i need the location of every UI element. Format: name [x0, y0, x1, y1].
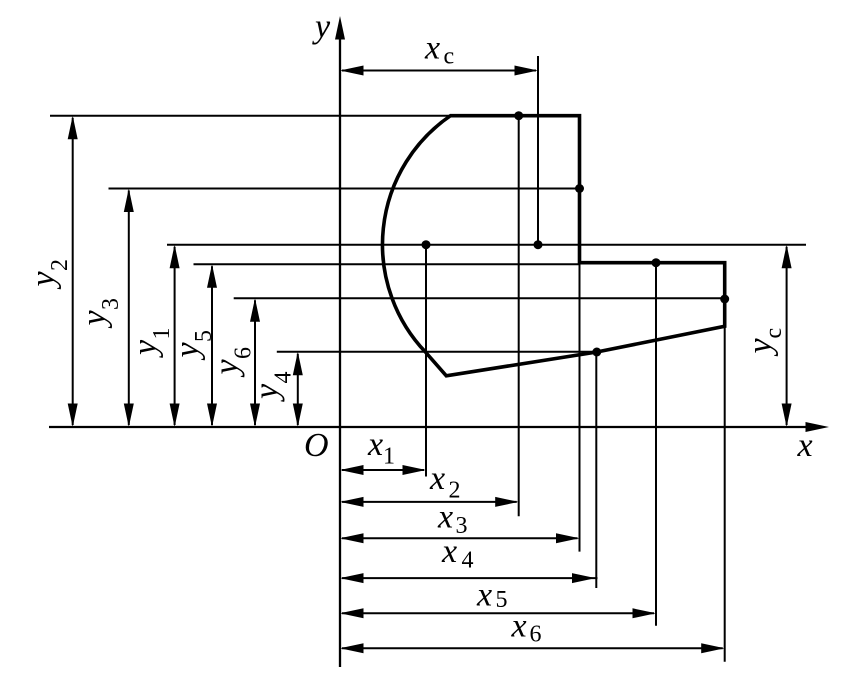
- centroid dot C5: [652, 258, 661, 267]
- label xc: [424, 30, 454, 70]
- extension line y5: [194, 263, 581, 265]
- extension line x2: [518, 116, 520, 517]
- label x5: [476, 577, 508, 614]
- label x6: [511, 608, 542, 648]
- label x4: [441, 533, 474, 574]
- centroid dot C6: [720, 295, 729, 304]
- svg-text:4: 4: [271, 372, 297, 384]
- svg-text:1: 1: [383, 444, 395, 470]
- label y2: [25, 259, 73, 290]
- svg-text:x: x: [441, 533, 457, 570]
- svg-text:x: x: [429, 460, 445, 497]
- extension line y3: [109, 188, 580, 190]
- svg-text:6: 6: [530, 622, 542, 648]
- svg-text:x: x: [367, 426, 383, 463]
- svg-text:1: 1: [149, 328, 175, 340]
- centroid dot C3: [575, 184, 584, 193]
- dimension x5: [340, 608, 656, 618]
- svg-text:c: c: [761, 328, 787, 339]
- svg-text:y: y: [169, 342, 206, 361]
- svg-text:x: x: [476, 577, 492, 614]
- svg-text:4: 4: [462, 548, 474, 574]
- extension line y1 / yc: [167, 244, 806, 246]
- svg-text:5: 5: [496, 587, 508, 613]
- svg-text:2: 2: [47, 259, 73, 271]
- label x2: [429, 460, 461, 503]
- dimension x2: [340, 497, 519, 507]
- dimension y1: [170, 245, 180, 427]
- label x1: [367, 426, 395, 470]
- extension line x4: [595, 352, 597, 588]
- svg-text:x: x: [511, 608, 527, 645]
- centroid dot C1: [422, 240, 431, 249]
- svg-text:5: 5: [191, 330, 217, 342]
- dimension xc: [340, 66, 538, 76]
- extension line x3: [579, 263, 581, 552]
- x-axis: [49, 422, 829, 432]
- dimension yc: [782, 245, 792, 427]
- svg-text:x: x: [437, 499, 453, 536]
- dimension y6: [250, 298, 260, 427]
- extension line x6: [724, 299, 726, 662]
- dimension y4: [293, 352, 303, 427]
- svg-text:x: x: [797, 427, 813, 464]
- label y5: [169, 330, 217, 361]
- svg-text:y: y: [127, 339, 164, 358]
- svg-text:y: y: [209, 359, 246, 378]
- centroid dot C overall: [534, 240, 543, 249]
- centroid dot C4: [592, 348, 601, 357]
- svg-text:x: x: [424, 30, 440, 67]
- label y6: [209, 347, 257, 378]
- svg-text:c: c: [444, 44, 455, 70]
- extension line y2 (top edge level): [50, 115, 452, 117]
- y-axis: [335, 16, 345, 667]
- svg-text:O: O: [304, 427, 329, 464]
- shape outline: [382, 116, 724, 376]
- label y4: [249, 372, 297, 403]
- label yc: [742, 328, 787, 357]
- svg-text:3: 3: [456, 513, 468, 539]
- dimension y3: [124, 189, 134, 428]
- dimension x3: [340, 533, 580, 543]
- svg-text:y: y: [312, 9, 331, 46]
- svg-text:y: y: [249, 383, 286, 402]
- extension line y4: [277, 351, 597, 353]
- svg-text:y: y: [742, 338, 779, 357]
- extension line x1: [425, 245, 427, 477]
- dimension y2: [68, 116, 78, 427]
- svg-text:6: 6: [231, 347, 257, 359]
- dimension x6: [340, 643, 725, 653]
- dimension x4: [340, 573, 598, 583]
- centroid dot C2: [514, 111, 523, 120]
- svg-text:3: 3: [98, 298, 124, 310]
- extension line xc: [537, 56, 539, 245]
- label y3: [76, 298, 124, 329]
- extension line x5: [655, 263, 657, 626]
- dimension x1: [340, 465, 426, 475]
- extension line y6: [234, 297, 725, 299]
- label x3: [437, 499, 468, 540]
- svg-text:y: y: [76, 310, 113, 329]
- dimension y5: [207, 264, 217, 427]
- label y1: [127, 328, 175, 359]
- svg-text:y: y: [25, 271, 62, 290]
